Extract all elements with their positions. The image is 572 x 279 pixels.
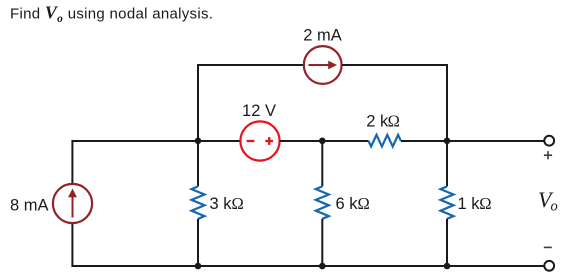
12 V minus sign <box>247 140 255 142</box>
label - (output polarity) <box>544 246 552 248</box>
current source 2 mA (circle) <box>304 46 342 84</box>
wire: mid rail left segment with left outer corner <box>72 141 240 184</box>
wire: mid rail right segment (2 kohm to + terminal) <box>401 140 544 142</box>
resistor 6 kOhm (vertical zigzag) <box>316 186 329 218</box>
voltage source 12 V (circle) <box>240 121 279 160</box>
wire: 3 kohm branch top lead <box>197 141 199 186</box>
wire: 6 kohm branch bottom lead <box>321 219 323 266</box>
wire: 1 kohm branch bottom lead <box>446 219 448 266</box>
label + (output polarity) <box>544 151 552 159</box>
svg-text:6 k: 6 k <box>336 195 359 213</box>
wire: top rail left segment with left riser (node at 3k top to 2mA source) <box>198 65 304 141</box>
wire: mid rail middle segment (12 V source to 2 kohm) <box>280 140 369 142</box>
svg-text:Ω: Ω <box>388 111 400 130</box>
resistor 1 kOhm (vertical zigzag) <box>441 186 454 218</box>
svg-text:2 mA: 2 mA <box>303 27 342 45</box>
12 V plus sign <box>265 137 273 145</box>
8 mA arrow <box>68 189 77 218</box>
svg-text:3 k: 3 k <box>210 195 233 213</box>
wire: top rail right segment with right riser <box>342 65 447 141</box>
svg-text:o: o <box>551 199 558 215</box>
terminal: - output <box>544 261 554 271</box>
wire: bottom rail with left lower corner <box>72 223 543 266</box>
svg-text:Ω: Ω <box>479 194 491 213</box>
wire: 3 kohm branch bottom lead <box>197 219 199 266</box>
svg-text:8 mA: 8 mA <box>10 196 49 214</box>
junction node: bottom rail at 1 kohm <box>444 263 451 270</box>
svg-text:1 k: 1 k <box>458 195 481 213</box>
terminal: + output <box>544 136 554 146</box>
current source 8 mA (circle) <box>53 184 92 223</box>
svg-text:Ω: Ω <box>232 194 244 213</box>
svg-text:2 k: 2 k <box>366 112 389 130</box>
junction node: mid rail at 6 kohm <box>319 138 326 145</box>
svg-text:12 V: 12 V <box>242 102 276 120</box>
resistor 3 kOhm (vertical zigzag) <box>192 186 205 218</box>
svg-text:Ω: Ω <box>358 194 370 213</box>
wire: 1 kohm branch top lead <box>446 141 448 186</box>
svg-text:Find Vo using nodal analysis.: Find Vo using nodal analysis. <box>10 3 213 25</box>
junction node: bottom rail at 3 kohm <box>195 263 202 270</box>
wire: 6 kohm branch top lead <box>321 141 323 186</box>
junction node: bottom rail at 6 kohm <box>319 263 326 270</box>
junction node: mid rail at 3 kohm <box>195 138 202 145</box>
2 mA arrow <box>309 61 338 70</box>
resistor 2 kOhm (horizontal zigzag) <box>368 135 400 147</box>
junction node: mid rail at 1 kohm <box>444 138 451 145</box>
